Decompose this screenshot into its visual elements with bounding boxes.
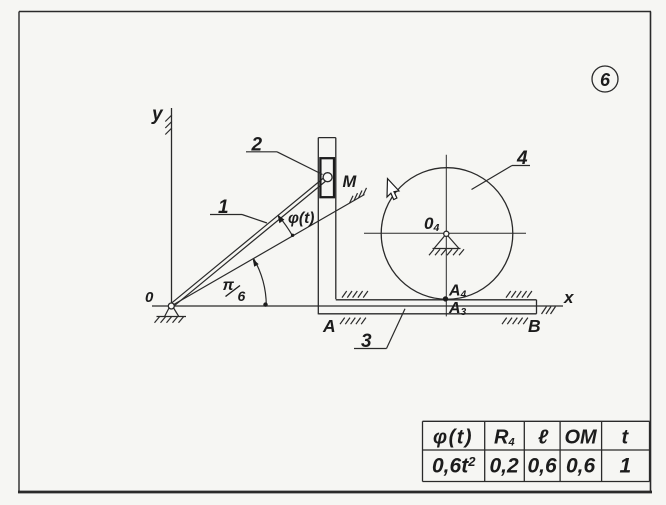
ground hatching below bar left	[340, 318, 366, 325]
pin M	[323, 173, 332, 182]
svg-text:φ(t): φ(t)	[288, 210, 314, 227]
svg-text:M: M	[343, 173, 358, 191]
svg-text:0,6: 0,6	[566, 455, 596, 478]
x-axis	[152, 305, 563, 307]
ground hatching above bar left	[342, 291, 368, 298]
svg-text:y: y	[151, 104, 164, 125]
data table	[423, 421, 650, 481]
ground hatching below bar right	[502, 318, 528, 325]
svg-text:0,6: 0,6	[528, 455, 558, 478]
pin O	[168, 303, 174, 309]
link 1 rod (two parallel edges O to M)	[170, 176, 329, 308]
pivot at O4	[433, 236, 461, 249]
pin O4	[444, 231, 449, 236]
pivot at origin O	[157, 308, 187, 317]
svg-text:6: 6	[238, 288, 246, 304]
svg-text:OM: OM	[565, 427, 599, 449]
y-axis	[171, 108, 173, 304]
svg-text:x: x	[563, 288, 575, 307]
wheel 4 circle	[381, 168, 513, 300]
wheel centerlines	[364, 155, 526, 317]
sheet number circle 6	[592, 66, 618, 92]
bracket 3 vertical channel	[318, 138, 336, 315]
svg-text:0,2: 0,2	[490, 455, 520, 478]
svg-text:φ(t): φ(t)	[433, 427, 473, 449]
x-axis end hatch ticks	[542, 307, 556, 315]
svg-text:6: 6	[600, 70, 611, 90]
mouse cursor	[387, 179, 399, 200]
slider 2 block	[320, 158, 334, 197]
label pi/6	[223, 277, 246, 304]
label 1 with leader	[210, 197, 267, 223]
contact point A4/A3	[443, 296, 448, 301]
label 4 with leader	[472, 148, 531, 190]
svg-text:B: B	[528, 316, 541, 336]
y-axis hatch ticks	[165, 115, 172, 135]
pi/6 angle arc with arrow	[253, 259, 268, 307]
guide line hatch ticks	[350, 188, 367, 203]
svg-text:ℓ: ℓ	[538, 427, 549, 449]
svg-text:A: A	[322, 316, 336, 336]
label 3 with leader	[354, 309, 405, 352]
ground hatching above bar right	[506, 291, 532, 298]
svg-text:0: 0	[145, 289, 154, 306]
label 2 with leader	[246, 135, 323, 175]
bracket 3 horizontal bar	[318, 300, 536, 314]
phi(t) angle arc with arrow	[278, 215, 295, 237]
O4 ground hatching	[429, 249, 464, 255]
fixed guide line at pi/6 with hatching	[172, 195, 365, 306]
svg-text:1: 1	[620, 455, 632, 478]
origin ground hatching	[155, 317, 184, 323]
